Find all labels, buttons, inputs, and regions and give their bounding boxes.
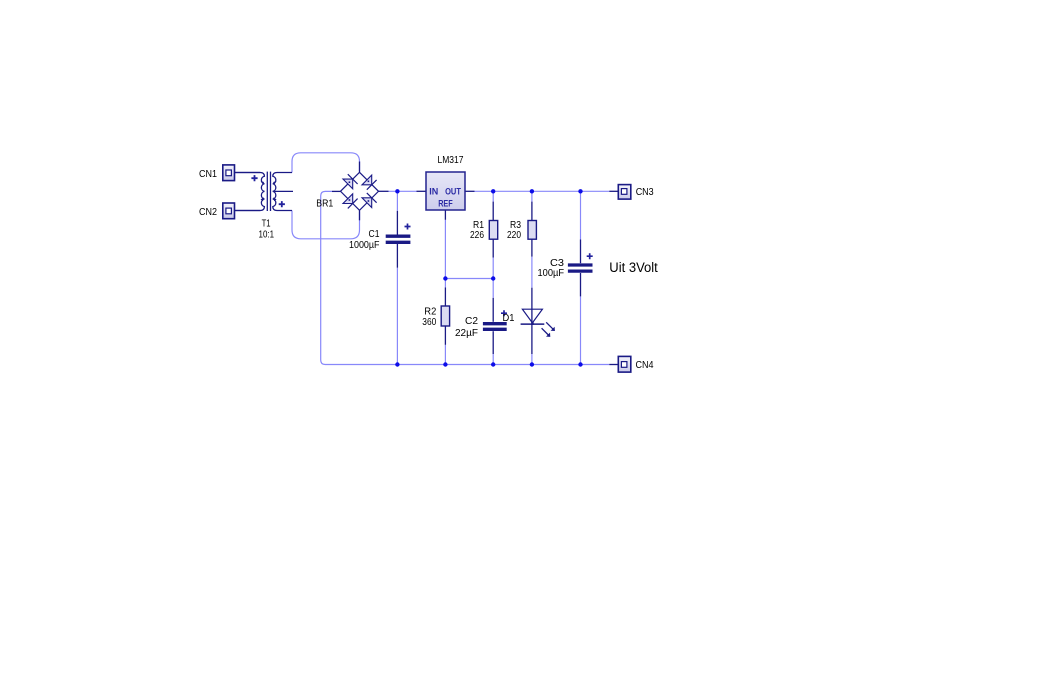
svg-text:IN: IN [429, 187, 438, 197]
svg-text:D1: D1 [503, 313, 515, 324]
svg-text:360: 360 [422, 317, 436, 328]
svg-text:LM317: LM317 [438, 155, 464, 166]
svg-text:22µF: 22µF [455, 328, 478, 339]
svg-text:BR1: BR1 [316, 199, 333, 210]
svg-text:1000µF: 1000µF [349, 240, 380, 251]
svg-text:CN1: CN1 [199, 169, 217, 180]
svg-text:226: 226 [470, 230, 484, 241]
svg-text:T1: T1 [262, 219, 271, 230]
svg-text:Uit 3Volt: Uit 3Volt [609, 260, 658, 275]
svg-text:220: 220 [507, 230, 521, 241]
svg-text:REF: REF [438, 199, 453, 209]
svg-text:10:1: 10:1 [259, 230, 275, 241]
svg-text:C2: C2 [465, 316, 478, 327]
svg-text:CN3: CN3 [636, 187, 654, 198]
svg-text:CN2: CN2 [199, 207, 217, 218]
svg-text:CN4: CN4 [636, 360, 654, 371]
svg-text:OUT: OUT [445, 187, 461, 197]
svg-text:100µF: 100µF [538, 268, 565, 279]
svg-text:C1: C1 [369, 229, 380, 240]
svg-text:R2: R2 [424, 306, 436, 317]
